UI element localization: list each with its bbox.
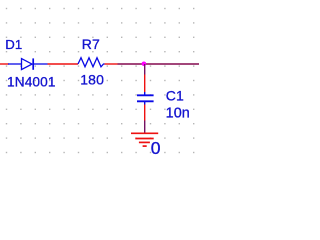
wire: left red segment into diode anode	[0, 63, 9, 65]
diode D1	[8, 58, 48, 69]
wire: red vertical to capacitor	[144, 75, 146, 93]
svg-text:R7: R7	[82, 36, 100, 52]
svg-text:D1: D1	[5, 37, 22, 52]
capacitor C1	[137, 92, 154, 105]
svg-text:C1: C1	[166, 88, 184, 104]
resistor R7	[78, 58, 105, 67]
svg-text:10n: 10n	[166, 105, 190, 121]
svg-text:0: 0	[151, 138, 161, 158]
wire: red vertical below capacitor	[144, 105, 146, 121]
wire: purple vertical into ground	[144, 121, 146, 134]
wire: red segment right of resistor	[105, 63, 118, 65]
wire: purple vertical below junction	[144, 64, 146, 75]
wire: red segment diode to resistor	[48, 63, 79, 65]
junction node	[142, 62, 147, 67]
wire: purple net resistor to junction	[118, 63, 145, 65]
svg-text:180: 180	[80, 72, 104, 88]
wire: purple net junction to right edge	[145, 63, 200, 65]
ground 0	[131, 133, 158, 146]
svg-text:1N4001: 1N4001	[7, 74, 56, 89]
